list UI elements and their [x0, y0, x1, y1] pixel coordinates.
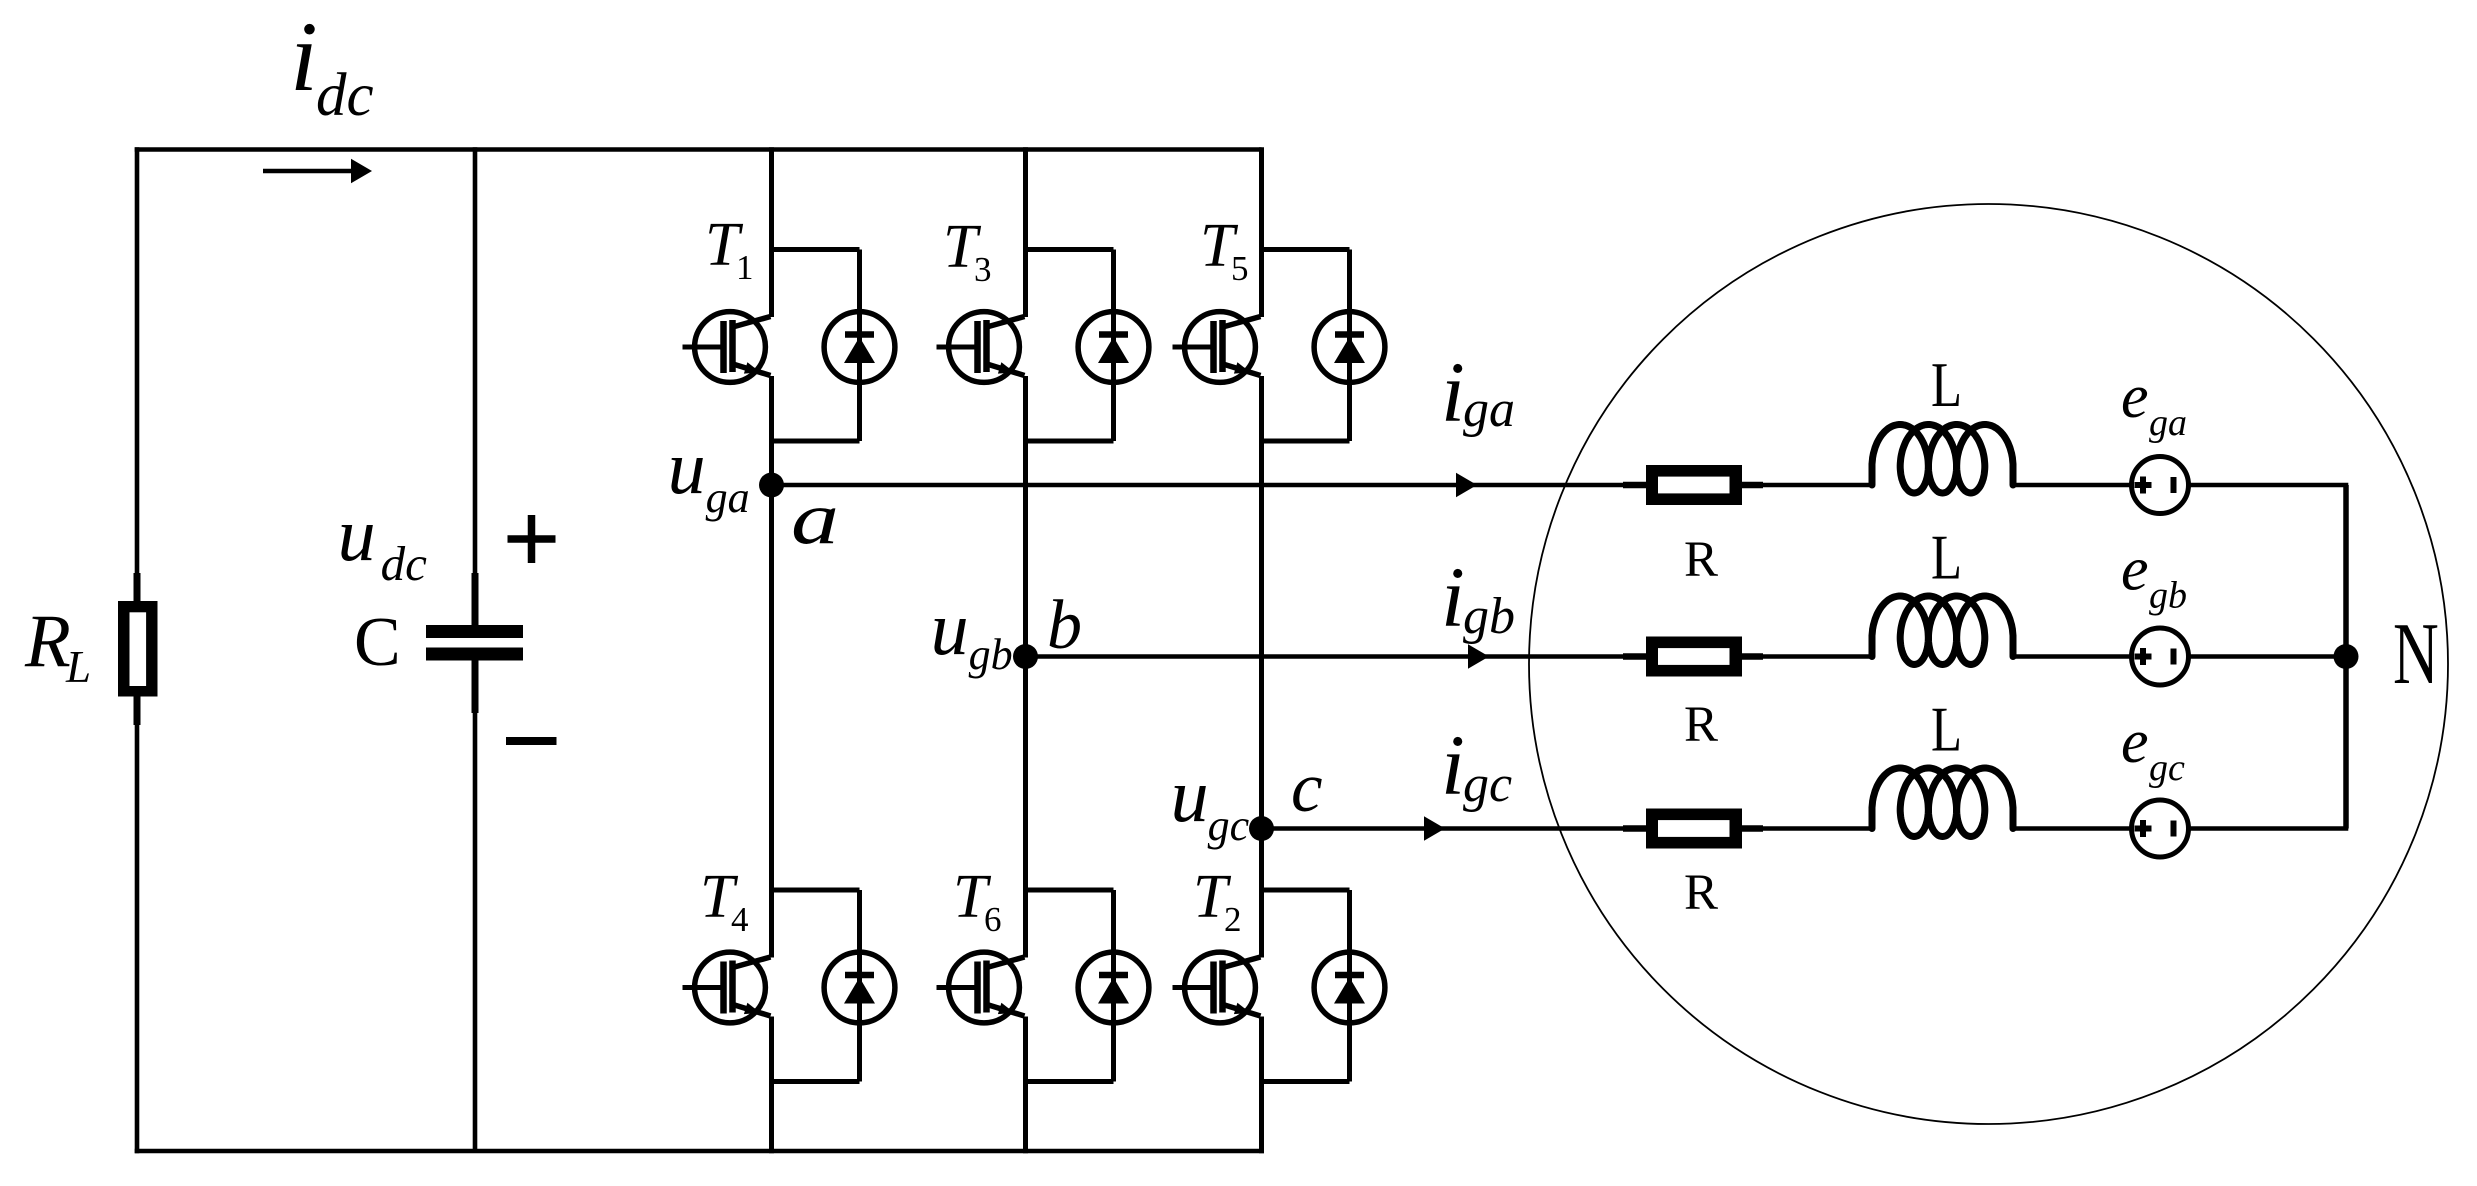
label T5 — [1200, 212, 1249, 288]
label igb — [1441, 549, 1515, 645]
wire: phase b line to grid — [1026, 654, 2349, 659]
svg-text:ga: ga — [1463, 381, 1515, 438]
svg-text:R: R — [1684, 532, 1718, 588]
inductor L phase a — [1872, 425, 2013, 494]
svg-text:ga: ga — [2149, 402, 2187, 444]
source egc — [2132, 800, 2189, 857]
current igb arrowhead — [1468, 644, 1489, 669]
svg-text:i: i — [1441, 717, 1465, 813]
label RL — [24, 600, 91, 692]
label T2 — [1193, 863, 1242, 939]
minus sign (DC bus polarity) — [506, 737, 557, 745]
svg-text:gb: gb — [2149, 575, 2187, 617]
svg-text:4: 4 — [731, 900, 749, 939]
wire: bottom DC bus — [135, 1149, 1264, 1154]
node N junction dot — [2334, 644, 2359, 669]
svg-text:ga: ga — [706, 473, 750, 522]
svg-text:C: C — [354, 604, 401, 681]
svg-text:L: L — [65, 642, 91, 692]
svg-text:u: u — [931, 587, 969, 671]
diode of T5 cell with connecting stubs — [1262, 250, 1385, 442]
node c junction dot — [1249, 816, 1274, 841]
transistor T1 — [683, 312, 771, 383]
svg-text:gc: gc — [1463, 756, 1512, 813]
current igc arrowhead — [1424, 816, 1445, 841]
svg-text:gb: gb — [1463, 588, 1515, 645]
wire: left branch upper segment — [135, 147, 140, 601]
svg-text:3: 3 — [974, 250, 992, 289]
svg-text:1: 1 — [736, 248, 754, 287]
grid boundary ellipse — [1529, 204, 2448, 1124]
inductor L phase b — [1872, 596, 2013, 665]
resistor R phase a — [1623, 465, 1763, 505]
wire: phase a line to grid — [772, 483, 2349, 488]
svg-text:R: R — [1684, 865, 1718, 921]
svg-text:gc: gc — [2149, 747, 2185, 789]
svg-text:e: e — [2121, 708, 2149, 776]
label egc — [2121, 708, 2185, 789]
label ega — [2121, 363, 2187, 444]
wire: phase b leg — [1023, 147, 1028, 1153]
plus sign (DC bus polarity) — [508, 515, 556, 563]
label T6 — [953, 863, 1002, 939]
wire: phase c line to grid — [1262, 826, 2349, 831]
label udc — [338, 493, 428, 591]
diode of T6 cell with connecting stubs — [1026, 890, 1149, 1082]
resistor RL thick leads — [134, 573, 141, 725]
svg-text:b: b — [1047, 587, 1082, 664]
svg-text:i: i — [1441, 549, 1465, 645]
resistor R phase c — [1623, 809, 1763, 849]
transistor T3 — [937, 312, 1025, 383]
label T1 — [705, 211, 754, 287]
label ugb — [931, 587, 1013, 679]
wire: left branch lower segment — [135, 697, 140, 1154]
svg-text:i: i — [1441, 344, 1465, 440]
label idc — [290, 1, 374, 129]
wire: neutral bus (right vertical) — [2343, 485, 2349, 829]
inductor L phase c — [1872, 768, 2013, 837]
svg-text:N: N — [2393, 605, 2439, 703]
svg-text:dc: dc — [316, 62, 374, 129]
svg-text:R: R — [24, 600, 71, 683]
svg-text:c: c — [1291, 749, 1323, 827]
current idc arrow — [263, 159, 372, 184]
node a junction dot — [759, 473, 784, 498]
svg-text:u: u — [338, 493, 376, 577]
wire: phase a leg — [769, 147, 774, 1153]
svg-text:u: u — [1171, 754, 1209, 838]
svg-text:e: e — [2121, 363, 2149, 431]
label egb — [2121, 536, 2187, 617]
resistor R phase b — [1623, 637, 1763, 677]
transistor T6 — [937, 952, 1025, 1023]
label uga — [668, 426, 750, 522]
transistor T2 — [1173, 952, 1261, 1023]
source ega — [2132, 457, 2189, 514]
wire: phase c leg — [1259, 147, 1264, 1153]
wire: capacitor branch lower — [473, 712, 478, 1151]
svg-text:u: u — [668, 426, 706, 510]
svg-text:2: 2 — [1224, 900, 1242, 939]
label igc — [1441, 717, 1512, 813]
diode of T3 cell with connecting stubs — [1026, 250, 1149, 442]
svg-text:i: i — [290, 1, 318, 112]
diode of T2 cell with connecting stubs — [1262, 890, 1385, 1082]
svg-text:dc: dc — [381, 536, 428, 591]
svg-text:gc: gc — [1208, 801, 1250, 850]
current iga arrowhead — [1456, 473, 1477, 498]
label iga — [1441, 344, 1515, 440]
svg-text:L: L — [1931, 349, 1962, 420]
wire: capacitor branch upper — [473, 147, 478, 574]
svg-text:R: R — [1684, 697, 1718, 753]
svg-text:e: e — [2121, 536, 2149, 604]
transistor T5 — [1173, 312, 1261, 383]
svg-text:L: L — [1931, 522, 1962, 593]
transistor T4 — [683, 952, 771, 1023]
diode of T1 cell with connecting stubs — [772, 250, 895, 442]
svg-text:a: a — [791, 478, 839, 560]
svg-text:5: 5 — [1231, 249, 1249, 288]
source egb — [2132, 628, 2189, 685]
node b junction dot — [1013, 644, 1038, 669]
label T3 — [943, 213, 992, 289]
svg-text:gb: gb — [969, 630, 1013, 679]
resistor RL body — [118, 601, 158, 697]
label ugc — [1171, 754, 1250, 850]
label T4 — [700, 863, 749, 939]
wire: top DC bus — [135, 147, 1262, 152]
capacitor C — [426, 573, 523, 713]
svg-text:L: L — [1931, 694, 1962, 765]
svg-text:6: 6 — [984, 900, 1002, 939]
diode of T4 cell with connecting stubs — [772, 890, 895, 1082]
